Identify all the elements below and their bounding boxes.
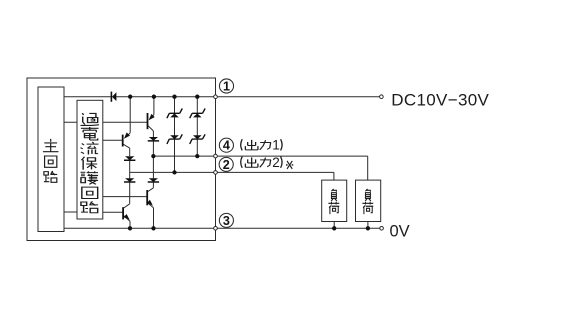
svg-text:DC10V−30V: DC10V−30V [391, 91, 489, 110]
svg-text:4: 4 [223, 139, 230, 153]
svg-text:2: 2 [272, 155, 280, 170]
svg-text:1: 1 [223, 80, 230, 94]
svg-text:2: 2 [223, 158, 230, 172]
svg-text:0V: 0V [390, 223, 410, 241]
svg-text:3: 3 [223, 214, 230, 228]
svg-text:1: 1 [272, 138, 280, 153]
